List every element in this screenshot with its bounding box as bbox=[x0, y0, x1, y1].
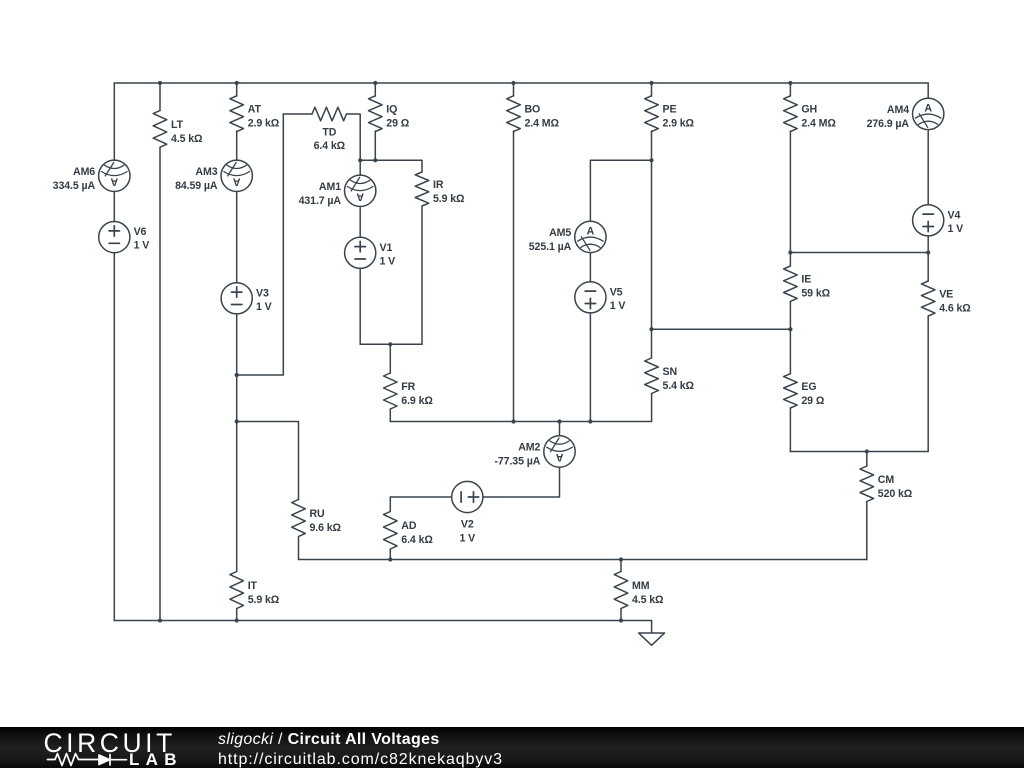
svg-text:IT: IT bbox=[248, 580, 258, 592]
wire PE down to SN bbox=[651, 131, 653, 358]
svg-text:1 V: 1 V bbox=[380, 255, 396, 267]
wire node row to IR bbox=[360, 159, 422, 161]
ammeter AM6 bbox=[99, 160, 130, 191]
footer title text bbox=[218, 730, 503, 769]
junction BO top bbox=[511, 81, 515, 85]
svg-text:2.4 MΩ: 2.4 MΩ bbox=[801, 118, 836, 130]
svg-text:IE: IE bbox=[801, 274, 811, 286]
label IT value 5.9 k&#937; bbox=[248, 580, 280, 606]
wire MM top lead bbox=[620, 560, 622, 572]
svg-text:CM: CM bbox=[878, 474, 895, 486]
wire IR bottom lead bbox=[421, 206, 423, 344]
wire LT top lead bbox=[159, 83, 161, 111]
resistor BO bbox=[507, 96, 521, 132]
resistor IE bbox=[784, 266, 798, 301]
label AD value 6.4 k&#937; bbox=[401, 520, 433, 546]
svg-text:1 V: 1 V bbox=[459, 532, 475, 544]
svg-text:PE: PE bbox=[663, 104, 677, 116]
wire AD to V2 bbox=[390, 496, 451, 498]
resistor IT bbox=[230, 572, 244, 609]
wire MM bottom lead bbox=[620, 609, 622, 621]
junction AT top bbox=[235, 81, 239, 85]
svg-text:IQ: IQ bbox=[386, 104, 397, 116]
wire V5 down to mid row bbox=[589, 313, 591, 422]
label AM3 value 84.59 &#181;A bbox=[175, 166, 218, 192]
svg-text:1 V: 1 V bbox=[256, 301, 272, 313]
svg-text:4.5 kΩ: 4.5 kΩ bbox=[632, 594, 664, 606]
voltage source V4 bbox=[913, 205, 944, 236]
junction IQ bottom bbox=[373, 158, 377, 162]
wire FR top lead bbox=[389, 344, 391, 373]
junction AD bottom bbox=[388, 557, 392, 561]
wire AD top lead bbox=[389, 497, 391, 512]
wire AD bottom lead bbox=[389, 549, 391, 560]
wire FR bottom lead bbox=[389, 409, 391, 422]
wire AM4 top bbox=[927, 83, 929, 98]
wire IR top lead bbox=[421, 160, 423, 172]
wire LT bottom lead bbox=[159, 147, 161, 620]
wire IT bottom lead bbox=[236, 609, 238, 621]
svg-text:GH: GH bbox=[801, 104, 817, 116]
wire AT to AM3 bbox=[236, 131, 238, 160]
voltage source V6 bbox=[99, 222, 130, 253]
svg-text:RU: RU bbox=[310, 508, 325, 520]
resistor AT bbox=[230, 96, 244, 132]
label V2 value 1 V bbox=[459, 518, 475, 544]
junction LT bottom bbox=[158, 618, 162, 622]
svg-text:LAB: LAB bbox=[129, 750, 183, 768]
wire V2 to AM2 bbox=[483, 467, 560, 497]
label AM6 value 334.5 &#181;A bbox=[53, 166, 96, 192]
resistor LT bbox=[153, 111, 167, 148]
wire TD left lead bbox=[283, 113, 312, 115]
wire RU bottom lead bbox=[298, 537, 300, 560]
svg-text:V4: V4 bbox=[948, 209, 961, 221]
wire ground stem bbox=[651, 621, 653, 634]
junction V3-RU bbox=[235, 419, 239, 423]
svg-text:MM: MM bbox=[632, 580, 650, 592]
wire AM4 to V4 bbox=[927, 130, 929, 205]
svg-text:5.9 kΩ: 5.9 kΩ bbox=[433, 193, 465, 205]
wire AM5 to V5 bbox=[589, 253, 591, 282]
label AM2 value -77.35 &#181;A bbox=[494, 442, 540, 468]
ground symbol bbox=[639, 633, 665, 645]
wire VE bottom lead bbox=[927, 316, 929, 452]
wire IE-V4 row bbox=[790, 252, 928, 254]
label MM value 4.5 k&#937; bbox=[632, 580, 664, 606]
svg-text:VE: VE bbox=[939, 289, 953, 301]
svg-text:IR: IR bbox=[433, 179, 444, 191]
junction V4-VE bbox=[926, 250, 930, 254]
wire IE top lead bbox=[789, 253, 791, 267]
resistor RU bbox=[292, 500, 306, 537]
wire row to AM1 bbox=[359, 160, 361, 175]
svg-text:9.6 kΩ: 9.6 kΩ bbox=[310, 522, 342, 534]
svg-text:AM3: AM3 bbox=[195, 166, 217, 178]
junction GH top bbox=[788, 81, 792, 85]
wire bottom rail bbox=[114, 620, 651, 622]
svg-text:FR: FR bbox=[401, 381, 415, 393]
resistor EG bbox=[784, 374, 798, 408]
wire V4 bottom bbox=[927, 236, 929, 253]
svg-text:AM6: AM6 bbox=[73, 166, 95, 178]
svg-text:4.6 kΩ: 4.6 kΩ bbox=[939, 303, 971, 315]
wire AM5 branch bbox=[590, 160, 651, 221]
label VE value 4.6 k&#937; bbox=[939, 289, 971, 315]
svg-text:5.9 kΩ: 5.9 kΩ bbox=[248, 594, 280, 606]
wire bottom loop row bbox=[299, 559, 867, 561]
wire BO down to mid row bbox=[513, 131, 515, 422]
label TD value 6.4 k&#937; bbox=[314, 127, 346, 153]
svg-text:6.4 kΩ: 6.4 kΩ bbox=[401, 534, 433, 546]
voltage source V2 bbox=[452, 481, 483, 512]
junction PE top bbox=[649, 81, 653, 85]
svg-text:A: A bbox=[587, 225, 595, 237]
svg-text:AM2: AM2 bbox=[518, 442, 540, 454]
junction IT bottom bbox=[235, 618, 239, 622]
svg-text:431.7 µA: 431.7 µA bbox=[299, 195, 342, 207]
ammeter AM5 bbox=[575, 221, 606, 252]
svg-text:V2: V2 bbox=[461, 518, 474, 530]
svg-text:6.4 kΩ: 6.4 kΩ bbox=[314, 140, 346, 152]
voltage source V5 bbox=[575, 282, 606, 313]
svg-text:AM4: AM4 bbox=[887, 104, 909, 116]
svg-text:29 Ω: 29 Ω bbox=[801, 395, 824, 407]
svg-text:520 kΩ: 520 kΩ bbox=[878, 488, 913, 500]
label BO value 2.4 M&#937; bbox=[525, 104, 560, 130]
label AM5 value 525.1 &#181;A bbox=[529, 227, 572, 253]
ammeter AM3 bbox=[221, 160, 252, 191]
svg-text:BO: BO bbox=[525, 104, 541, 116]
resistor GH bbox=[784, 96, 798, 132]
label FR value 6.9 k&#937; bbox=[401, 381, 433, 407]
junction GH-IE bbox=[788, 250, 792, 254]
wire V3 down to IT bbox=[236, 314, 238, 572]
svg-text:V6: V6 bbox=[134, 226, 147, 238]
label CM value 520 k&#937; bbox=[878, 474, 913, 500]
wire VE top lead bbox=[927, 253, 929, 282]
label V5 value 1 V bbox=[610, 286, 626, 312]
label V3 value 1 V bbox=[256, 287, 272, 313]
resistor MM bbox=[614, 572, 628, 609]
voltage source V1 bbox=[345, 237, 376, 268]
wire PE top lead bbox=[651, 83, 653, 96]
wire AM2 top bbox=[559, 422, 561, 436]
svg-text:2.9 kΩ: 2.9 kΩ bbox=[663, 118, 695, 130]
label V6 value 1 V bbox=[134, 226, 150, 252]
wire EG bottom lead bbox=[789, 408, 791, 452]
svg-text:EG: EG bbox=[801, 381, 816, 393]
wire GH top lead bbox=[789, 83, 791, 96]
svg-text:276.9 µA: 276.9 µA bbox=[867, 118, 910, 130]
wire AM1 to V1 bbox=[359, 207, 361, 238]
svg-text:LT: LT bbox=[171, 119, 184, 131]
resistor PE bbox=[645, 96, 659, 132]
ammeter AM4 bbox=[913, 98, 944, 129]
svg-text:SN: SN bbox=[663, 366, 678, 378]
wire IE bottom lead bbox=[789, 301, 791, 329]
svg-text:AM5: AM5 bbox=[549, 227, 571, 239]
label V1 value 1 V bbox=[380, 242, 396, 267]
wire CM bottom lead bbox=[866, 502, 868, 560]
resistor IR bbox=[415, 172, 429, 206]
label PE value 2.9 k&#937; bbox=[663, 104, 695, 130]
wire GH down to IE bbox=[789, 131, 791, 253]
svg-text:6.9 kΩ: 6.9 kΩ bbox=[401, 395, 433, 407]
svg-text:5.4 kΩ: 5.4 kΩ bbox=[663, 380, 695, 392]
resistor FR bbox=[384, 373, 398, 409]
junction TD-AM1 bbox=[358, 158, 362, 162]
svg-text:-77.35 µA: -77.35 µA bbox=[494, 456, 540, 468]
svg-text:A: A bbox=[111, 175, 119, 187]
junction EG-CM bbox=[865, 449, 869, 453]
wire mid row to SN bbox=[390, 394, 651, 422]
svg-text:TD: TD bbox=[322, 127, 336, 139]
label SN value 5.4 k&#937; bbox=[663, 366, 695, 392]
resistor TD bbox=[312, 107, 347, 121]
svg-text:AD: AD bbox=[401, 520, 417, 532]
junction IQ top bbox=[373, 81, 377, 85]
label IQ value 29 &#937; bbox=[386, 104, 409, 130]
svg-text:29 Ω: 29 Ω bbox=[386, 118, 409, 130]
wire TD left drop to node bbox=[237, 114, 284, 375]
resistor VE bbox=[921, 281, 935, 316]
wire SN-IE row bbox=[652, 328, 791, 330]
svg-text:2.9 kΩ: 2.9 kΩ bbox=[248, 118, 280, 130]
svg-text:59 kΩ: 59 kΩ bbox=[801, 288, 830, 300]
resistor AD bbox=[384, 512, 398, 550]
junction PE-AM5 bbox=[649, 158, 653, 162]
wire TD right lead down bbox=[347, 114, 361, 160]
svg-text:V3: V3 bbox=[256, 287, 269, 299]
junction MM top bbox=[619, 557, 623, 561]
svg-text:AM1: AM1 bbox=[319, 181, 341, 193]
junction LT top bbox=[158, 81, 162, 85]
wire EG top lead bbox=[789, 329, 791, 374]
wire IQ bottom lead bbox=[374, 131, 376, 160]
voltage source V3 bbox=[221, 283, 252, 314]
junction AM2 top bbox=[557, 419, 561, 423]
label EG value 29 &#937; bbox=[801, 381, 824, 407]
label IE value 59 k&#937; bbox=[801, 274, 830, 300]
ammeter AM1 bbox=[345, 175, 376, 206]
svg-text:1 V: 1 V bbox=[134, 240, 150, 252]
svg-text:1 V: 1 V bbox=[948, 223, 964, 235]
svg-text:2.4 MΩ: 2.4 MΩ bbox=[525, 118, 560, 130]
svg-text:AT: AT bbox=[248, 104, 262, 116]
wire V1 bottom bbox=[359, 269, 361, 345]
CircuitLab logo bbox=[0, 727, 210, 768]
wire RU branch bbox=[237, 422, 299, 500]
junction V5 mid row bbox=[588, 419, 592, 423]
svg-text:V1: V1 bbox=[380, 242, 393, 254]
junction V3-TD bbox=[235, 373, 239, 377]
svg-text:A: A bbox=[356, 190, 364, 202]
svg-text:A: A bbox=[233, 175, 241, 187]
wire AT top lead bbox=[236, 83, 238, 96]
wire V6 to bottom rail bbox=[113, 253, 115, 621]
svg-text:4.5 kΩ: 4.5 kΩ bbox=[171, 133, 203, 145]
label AM1 value 431.7 &#181;A bbox=[299, 181, 342, 207]
label LT value 4.5 k&#937; bbox=[171, 119, 203, 145]
svg-text:V5: V5 bbox=[610, 286, 623, 298]
junction MM bottom bbox=[619, 618, 623, 622]
resistor SN bbox=[645, 358, 659, 394]
svg-text:525.1 µA: 525.1 µA bbox=[529, 241, 572, 253]
wire EG-VE row bbox=[790, 451, 928, 453]
resistor CM bbox=[860, 466, 874, 502]
wire top rail bbox=[114, 82, 928, 84]
wire V1-IR loop bottom bbox=[360, 343, 422, 345]
ammeter AM2 bbox=[544, 436, 575, 467]
svg-text:84.59 µA: 84.59 µA bbox=[175, 180, 218, 192]
label AT value 2.9 k&#937; bbox=[248, 104, 280, 130]
svg-text:A: A bbox=[556, 451, 564, 463]
wire AM6 top bbox=[113, 83, 115, 160]
svg-text:1 V: 1 V bbox=[610, 300, 626, 312]
label AM4 value 276.9 &#181;A bbox=[867, 104, 910, 130]
junction V1 loop FR bbox=[388, 342, 392, 346]
wire CM top lead bbox=[866, 452, 868, 467]
svg-text:A: A bbox=[924, 102, 932, 114]
wire BO top lead bbox=[513, 83, 515, 96]
wire AM6 to V6 bbox=[113, 192, 115, 222]
svg-text:334.5 µA: 334.5 µA bbox=[53, 180, 96, 192]
junction PE-SN bbox=[649, 327, 653, 331]
resistor IQ bbox=[369, 96, 383, 132]
junction BO mid row bbox=[511, 419, 515, 423]
junction IE-EG bbox=[788, 327, 792, 331]
wire IQ top lead bbox=[374, 83, 376, 96]
label RU value 9.6 k&#937; bbox=[310, 508, 342, 534]
label IR value 5.9 k&#937; bbox=[433, 179, 465, 205]
label GH value 2.4 M&#937; bbox=[801, 104, 836, 130]
label V4 value 1 V bbox=[948, 209, 964, 235]
wire AM3 to V3 bbox=[236, 192, 238, 283]
